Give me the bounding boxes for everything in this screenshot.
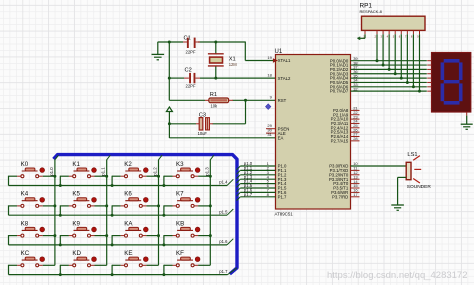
pin P2.6/A14 (27) stub xyxy=(331,132,360,139)
junction: RP1 pin 4 / P0.2 xyxy=(388,68,391,71)
7-segment digit 8 segments xyxy=(442,61,460,103)
push button K3 xyxy=(164,168,210,186)
svg-text:P2.7/A15: P2.7/A15 xyxy=(331,138,349,143)
display segment pins (left stubs) xyxy=(427,61,431,91)
junction: C2 row / ground rail xyxy=(168,77,171,80)
svg-text:EA: EA xyxy=(278,136,284,141)
junction: column 0 vertical / row 2 button xyxy=(53,234,56,237)
wire: keypad row 0 (net p1.4) xyxy=(9,179,234,185)
svg-text:K2: K2 xyxy=(124,161,132,168)
junction: row 0 wire / column 3 drop xyxy=(162,184,165,187)
svg-text:p1.3: p1.3 xyxy=(204,167,209,176)
svg-text:KE: KE xyxy=(124,250,132,257)
junction: column 2 vertical / row 1 button xyxy=(157,204,160,207)
display common pin wire xyxy=(466,112,468,124)
junction: crystal top / top rail xyxy=(214,41,217,44)
capacitor C3 (electrolytic 10uF) xyxy=(196,118,213,130)
pin RST (9) xyxy=(270,95,287,103)
svg-text:19: 19 xyxy=(267,55,272,60)
pin P2.3/A11 (24) stub xyxy=(331,119,360,126)
junction: row 2 wire / column 3 drop xyxy=(162,243,165,246)
svg-text:10k: 10k xyxy=(211,103,219,108)
ground (display) xyxy=(461,124,473,129)
wire: keypad column 1 vertical (net p1.1) xyxy=(107,155,111,265)
svg-text:p1.7: p1.7 xyxy=(244,192,253,197)
wire: ground/XTAL1 top rail y=42 xyxy=(158,42,276,61)
wire: keypad row 2 (net p1.6) xyxy=(9,239,234,245)
ground (sounder) xyxy=(391,205,404,210)
junction: crystal bottom / XTAL2 row xyxy=(214,77,217,80)
push button K8 xyxy=(9,227,55,245)
junction: RP1 pin 7 / P0.5 xyxy=(406,81,409,84)
svg-text:C1: C1 xyxy=(184,35,191,41)
wire: RST row y=100.3 xyxy=(169,99,275,101)
pin P0.5/AD5 (34) wire to display xyxy=(330,78,427,85)
pin P0.2/AD2 (37) wire to display xyxy=(330,65,427,72)
svg-text:K4: K4 xyxy=(21,191,29,198)
push button K6 xyxy=(112,197,158,215)
pin P1.0 (1) xyxy=(267,161,287,169)
svg-text:K9: K9 xyxy=(72,220,80,227)
wire: ground rail vertical x=169.3 xyxy=(168,42,170,100)
svg-text:P3.7/RD: P3.7/RD xyxy=(332,194,348,199)
pin P1.7 (8) xyxy=(267,192,287,200)
svg-text:LS1: LS1 xyxy=(407,152,417,158)
push button K4 xyxy=(9,197,55,215)
wire: keypad column 3 vertical (net p1.3) xyxy=(210,155,214,265)
svg-text:12M: 12M xyxy=(229,62,238,67)
push button KA xyxy=(112,227,158,245)
svg-text:KF: KF xyxy=(176,250,184,257)
RP1 pin 5 drop wire to P0.3 xyxy=(394,30,396,73)
capacitor C2 xyxy=(184,73,200,83)
7-segment display body xyxy=(432,53,471,113)
svg-text:28: 28 xyxy=(353,136,358,141)
pin P3.5/T1 (15) stub xyxy=(333,183,359,190)
junction: VCC rail / C3 row xyxy=(168,122,171,125)
pin P1.5 (6) xyxy=(267,183,287,191)
RP1 pin 2 drop wire to P0.0 xyxy=(376,30,378,60)
svg-text:XTAL2: XTAL2 xyxy=(278,76,291,81)
junction: column 3 vertical / row 2 button xyxy=(209,234,212,237)
svg-text:K5: K5 xyxy=(72,191,80,198)
junction: column 0 vertical / row 1 button xyxy=(53,204,56,207)
junction: column 2 vertical / row 0 button xyxy=(157,175,160,178)
junction: row 3 wire / column 2 drop xyxy=(111,273,114,276)
junction: row 1 wire / column 1 drop xyxy=(59,214,62,217)
pin P2.4/A12 (25) stub xyxy=(331,123,360,130)
svg-text:ALE: ALE xyxy=(278,131,286,136)
svg-text:KD: KD xyxy=(72,250,81,257)
pin P1.4 (5) xyxy=(267,179,287,187)
wire: bus to P1.5 xyxy=(237,188,276,192)
svg-text:30: 30 xyxy=(267,128,272,133)
pin XTAL2 (18) xyxy=(267,73,291,81)
pin P1.3 (4) xyxy=(267,174,287,182)
RP1 pin 6 drop wire to P0.4 xyxy=(400,30,402,78)
RP1 pin 9 drop wire to P0.7 xyxy=(418,30,420,91)
svg-text:RP1: RP1 xyxy=(360,3,373,10)
pin P3.6/WR (16) stub xyxy=(331,188,359,195)
push button KF xyxy=(164,257,210,275)
wire: bus to P1.2 xyxy=(237,175,276,179)
push button KB xyxy=(164,227,210,245)
junction: row 3 wire / column 3 drop xyxy=(162,273,165,276)
svg-text:K0: K0 xyxy=(21,161,29,168)
pin P3.7/RD (17) stub xyxy=(332,192,359,199)
svg-text:P0.7/AD7: P0.7/AD7 xyxy=(330,89,349,94)
wire: bus to P1.6 xyxy=(237,192,276,196)
junction: row 3 wire / column 1 drop xyxy=(59,273,62,276)
capacitor C1 xyxy=(183,38,200,48)
svg-text:RST: RST xyxy=(278,98,287,103)
pin P2.2/A10 (23) stub xyxy=(331,114,360,121)
wire: sounder to ground xyxy=(398,177,407,204)
pin P2.1/A9 (22) stub xyxy=(333,110,359,117)
svg-text:p1.5: p1.5 xyxy=(219,209,228,214)
pin P2.5/A13 (26) stub xyxy=(331,127,360,134)
push button K2 xyxy=(112,168,158,186)
pin P0.3/AD3 (36) wire to display xyxy=(330,69,427,76)
wire: EA/VCC row y=137.8 xyxy=(169,137,275,139)
pin P3.4/T0 (14) stub xyxy=(333,179,359,186)
junction: column 1 vertical / row 1 button xyxy=(105,204,108,207)
junction: column 3 vertical / row 1 button xyxy=(209,204,212,207)
svg-text:p1.1: p1.1 xyxy=(101,167,106,176)
svg-text:p1.7: p1.7 xyxy=(219,269,228,274)
pin PSEN (29) stub xyxy=(266,123,289,131)
pin ALE (30) stub xyxy=(266,128,286,136)
junction: row 2 wire / column 1 drop xyxy=(59,243,62,246)
pin P1.1 (2) xyxy=(267,166,287,174)
pin P2.0/A8 (21) stub xyxy=(333,106,359,113)
junction: column 0 vertical / row 0 button xyxy=(53,175,56,178)
junction: column 3 vertical / row 0 button xyxy=(209,175,212,178)
junction: row 1 wire / column 2 drop xyxy=(111,214,114,217)
RP1 pin 7 drop wire to P0.5 xyxy=(406,30,408,82)
svg-text:22PF: 22PF xyxy=(186,84,196,89)
svg-text:p1.6: p1.6 xyxy=(219,239,228,244)
svg-text:R1: R1 xyxy=(210,92,217,98)
svg-text:K1: K1 xyxy=(72,161,80,168)
svg-text:K3: K3 xyxy=(176,161,184,168)
svg-text:31: 31 xyxy=(267,132,272,137)
pin P0.6/AD6 (33) wire to display xyxy=(330,82,427,89)
junction: RP1 pin 8 / P0.6 xyxy=(412,85,415,88)
op: microcontroller U1 AT89C51 body xyxy=(276,55,351,210)
junction: row 1 wire / column 3 drop xyxy=(162,214,165,217)
wire: keypad column 0 vertical (net p1.0) xyxy=(55,155,59,265)
svg-text:SOUNDER: SOUNDER xyxy=(407,184,432,190)
RP1 pin 4 drop wire to P0.2 xyxy=(388,30,390,69)
pin P3.3/INT1 (13) stub xyxy=(329,174,360,181)
svg-text:U1: U1 xyxy=(275,49,283,55)
svg-text:C2: C2 xyxy=(185,67,192,73)
push button KC xyxy=(9,257,55,275)
svg-text:X1: X1 xyxy=(229,57,236,63)
wire: keypad row 1 (net p1.5) xyxy=(9,209,234,215)
pin P1.6 (7) xyxy=(267,188,287,196)
junction: RP1 pin 2 / P0.0 xyxy=(376,59,379,62)
svg-text:K7: K7 xyxy=(176,191,184,198)
svg-text:17: 17 xyxy=(353,192,358,197)
pin P1.2 (3) xyxy=(267,170,287,178)
wire: keypad row 3 (net p1.7) xyxy=(9,268,238,275)
svg-text:p1.4: p1.4 xyxy=(219,180,228,185)
RP1 pin 8 drop wire to P0.6 xyxy=(412,30,414,86)
pin P0.1/AD1 (38) wire to display xyxy=(330,60,427,67)
push button K9 xyxy=(60,227,106,245)
pin P0.4/AD4 (35) wire to display xyxy=(330,73,427,80)
push button K5 xyxy=(60,197,106,215)
wire: keypad column 2 vertical (net p1.2) xyxy=(159,155,163,265)
junction: RP1 pin 6 / P0.4 xyxy=(400,77,403,80)
svg-text:32: 32 xyxy=(353,86,358,91)
push button KD xyxy=(60,257,106,275)
svg-text:C3: C3 xyxy=(199,112,206,118)
sounder LS1 body xyxy=(406,162,411,179)
node marker (blue diamond) on RST net xyxy=(266,104,271,110)
wire: bus to P1.0 xyxy=(237,166,276,170)
ground (top-left) xyxy=(152,42,165,60)
sounder sound rays xyxy=(413,156,421,183)
bus P1 (keypad bus) xyxy=(54,155,238,274)
wire: C3 drop vertical xyxy=(245,100,247,124)
pin P3.0/RXD (10) wire to sounder xyxy=(329,161,406,168)
junction: ground rail / top rail xyxy=(168,41,171,44)
svg-text:RESPACK-8: RESPACK-8 xyxy=(360,9,383,14)
svg-text:KC: KC xyxy=(21,250,30,257)
wire: XTAL2 row y=78.1 xyxy=(169,77,275,79)
junction: column 1 vertical / row 2 button xyxy=(105,234,108,237)
junction: row 0 wire / column 2 drop xyxy=(111,184,114,187)
svg-text:KA: KA xyxy=(124,220,133,227)
push button K1 xyxy=(60,168,106,186)
junction: column 2 vertical / row 2 button xyxy=(157,234,160,237)
pin XTAL1 (19) xyxy=(267,55,291,63)
pin P3.2/INT0 (12) stub xyxy=(329,170,360,177)
svg-text:AT89C51: AT89C51 xyxy=(275,212,294,217)
junction: RP1 pin 9 / P0.7 xyxy=(418,90,421,93)
svg-text:KB: KB xyxy=(176,220,184,227)
junction: RP1 pin 3 / P0.1 xyxy=(382,64,385,67)
wire: bus to P1.1 xyxy=(237,170,276,174)
svg-text:22PF: 22PF xyxy=(186,49,196,54)
push button KE xyxy=(112,257,158,275)
svg-text:p1.0: p1.0 xyxy=(49,167,54,176)
junction: RP1 pin 5 / P0.3 xyxy=(394,72,397,75)
wire: bus to P1.3 xyxy=(237,179,276,183)
wire: bus to P1.4 xyxy=(237,184,276,188)
svg-text:XTAL1: XTAL1 xyxy=(278,58,291,63)
RP1 pin 3 drop wire to P0.1 xyxy=(382,30,384,65)
pin P0.0/AD0 (39) wire to display xyxy=(330,56,427,63)
svg-text:p1.2: p1.2 xyxy=(153,167,158,176)
push button K7 xyxy=(164,197,210,215)
RP1 common pin wire + power terminal xyxy=(358,30,366,39)
pin P3.1/TXD (11) stub xyxy=(330,166,360,173)
svg-text:P1.7: P1.7 xyxy=(278,194,287,199)
pin EA (31) xyxy=(267,132,283,140)
svg-text:K8: K8 xyxy=(21,220,29,227)
resistor R1 xyxy=(205,98,233,103)
power terminal VCC (arrow up) xyxy=(166,107,172,138)
pin P0.7/AD7 (32) wire to display xyxy=(330,86,427,93)
resistor pack RP1 xyxy=(362,16,426,30)
svg-text:K6: K6 xyxy=(124,191,132,198)
crystal X1 xyxy=(208,42,224,78)
svg-text:10uF: 10uF xyxy=(198,131,208,136)
junction: row 0 wire / column 1 drop xyxy=(59,184,62,187)
junction: RST row / C3 drop x=245.5 xyxy=(244,99,247,102)
svg-text:18: 18 xyxy=(267,73,272,78)
wire: bus to P1.7 xyxy=(237,197,276,201)
junction: row 2 wire / column 2 drop xyxy=(111,243,114,246)
svg-text:https://blog.csdn.net/qq_42831: https://blog.csdn.net/qq_4283172 xyxy=(327,270,468,281)
junction: column 1 vertical / row 0 button xyxy=(105,175,108,178)
push button K0 xyxy=(9,168,55,186)
pin P2.7/A15 (28) stub xyxy=(331,136,360,143)
wire: C3 row y=123.8 xyxy=(169,123,245,125)
RP1 pin number labels xyxy=(363,34,419,38)
